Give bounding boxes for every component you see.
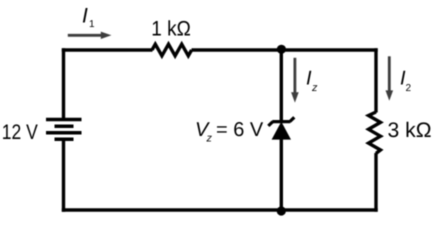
svg-text:1 kΩ: 1 kΩ	[151, 18, 191, 41]
zener diode D1 right tail	[290, 117, 295, 121]
wire top-right segment	[192, 48, 378, 51]
svg-text:z: z	[206, 133, 213, 145]
zener diode D1 cathode bar	[272, 120, 290, 123]
svg-text:3 kΩ: 3 kΩ	[388, 119, 432, 142]
current arrow Iz	[293, 58, 296, 93]
svg-text:1: 1	[89, 19, 95, 30]
wire top-left segment	[62, 48, 153, 51]
svg-text:= 6 V: = 6 V	[216, 119, 264, 141]
zener diode D1 triangle	[272, 122, 291, 140]
battery B1 12 V plates	[46, 118, 82, 122]
node bottom junction	[277, 206, 286, 215]
wire left upper (to battery)	[62, 48, 65, 119]
resistor R2 3 kOhm zigzag	[369, 112, 381, 153]
current arrow I1	[68, 34, 102, 37]
wire bottom	[62, 208, 378, 211]
wire right lower	[374, 153, 377, 212]
svg-text:z: z	[311, 82, 318, 94]
zener diode D1 left tail	[268, 122, 273, 126]
svg-text:2: 2	[406, 83, 412, 94]
current arrow I2	[388, 56, 391, 91]
wire left lower (battery to bottom)	[62, 139, 65, 211]
node top junction	[277, 45, 286, 54]
svg-text:I: I	[82, 4, 88, 27]
wire middle branch lower	[280, 138, 283, 210]
svg-text:12 V: 12 V	[2, 121, 38, 144]
wire right upper	[374, 48, 377, 112]
wire middle branch upper	[280, 48, 283, 123]
resistor R1 1 kOhm zigzag	[152, 44, 192, 56]
